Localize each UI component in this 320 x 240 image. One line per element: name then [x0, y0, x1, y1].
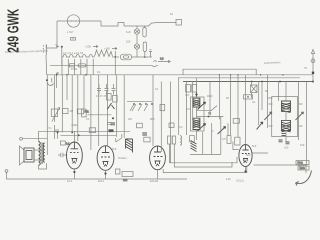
- wire lamp rail: [57, 20, 101, 22]
- resistor R4 capsule on rail: [78, 64, 86, 67]
- cap C2: [55, 130, 59, 139]
- vertical v124: [123, 75, 125, 138]
- resistor bottom box: [122, 172, 133, 183]
- svg-text:UCL11: UCL11: [236, 179, 244, 183]
- ground lead: [305, 165, 307, 173]
- wire lamp drop: [46, 21, 57, 48]
- IFT3 winding A: [282, 101, 291, 113]
- trimmer circle: [209, 112, 211, 114]
- vertical v91: [90, 75, 92, 150]
- tube T1: [67, 142, 83, 169]
- nested wire 1: [170, 144, 238, 163]
- cap c_c: [112, 84, 116, 95]
- svg-text:Erde: Erde: [300, 166, 306, 170]
- heater arrow 6,3V: [152, 57, 171, 67]
- junction dot top: [61, 46, 63, 48]
- antenna dot: [312, 72, 314, 74]
- wire to rectifier: [126, 26, 137, 29]
- rectifier circle U1a: [134, 29, 139, 34]
- resistor box mid: [89, 128, 95, 133]
- band switch contacts: [130, 103, 153, 111]
- switch wire s: [57, 73, 59, 88]
- svg-text:ECH11: ECH11: [150, 179, 159, 183]
- pickup terminal: [20, 137, 48, 140]
- left edge rect: [160, 105, 165, 111]
- bus 3: [183, 81, 313, 83]
- heater loop winding: [62, 54, 95, 57]
- vertical v54: [54, 75, 56, 139]
- box right2: [235, 137, 240, 145]
- wire cap to corner: [132, 56, 152, 58]
- svg-text:0,5: 0,5: [222, 137, 226, 141]
- svg-text:Netz: Netz: [298, 161, 304, 165]
- junction T2: [104, 172, 106, 174]
- svg-text:0,1: 0,1: [97, 70, 101, 74]
- cap small mid: [108, 123, 112, 125]
- svg-text:AL 4: AL 4: [67, 179, 73, 183]
- cap c_a: [97, 84, 101, 95]
- tube T3: [150, 146, 166, 170]
- svg-text:5nF: 5nF: [252, 144, 257, 148]
- svg-text:EL11: EL11: [98, 179, 104, 183]
- rectifier circle U1b: [134, 44, 139, 49]
- svg-text:47n: 47n: [185, 93, 190, 97]
- mains lead 2: [51, 78, 53, 83]
- svg-text:14C: 14C: [226, 177, 231, 181]
- box small r2: [169, 123, 174, 128]
- dark arrow down: [196, 93, 198, 96]
- svg-text:100: 100: [126, 40, 131, 44]
- arrow B+160: [112, 48, 117, 50]
- resistor R5 box: [51, 109, 57, 117]
- wire speaker leads: [34, 150, 45, 160]
- hatch blob mid: [191, 141, 197, 152]
- elcap small: [149, 50, 152, 57]
- svg-text:0,2: 0,2: [179, 125, 183, 129]
- vertical v62: [61, 75, 63, 133]
- svg-text:100: 100: [300, 143, 305, 147]
- wire rect2 drop: [144, 52, 146, 58]
- caps right bottom: [279, 140, 290, 144]
- mains wave b: [47, 83, 54, 86]
- dark cap col: [111, 123, 116, 125]
- dial lamp L617: [67, 15, 79, 27]
- vertical tap 115: [114, 51, 116, 75]
- mains dot: [46, 79, 48, 81]
- fuse under lamp: [71, 38, 76, 41]
- IFT3 column: [285, 82, 287, 143]
- wire T1 bottom: [73, 169, 75, 179]
- switch rail: [127, 100, 152, 102]
- box R8: [77, 109, 89, 114]
- band verticals: [62, 59, 93, 75]
- svg-text:1M: 1M: [70, 109, 74, 113]
- dot tap115: [114, 56, 116, 58]
- svg-text:MW: MW: [150, 117, 155, 121]
- resistor R2 capsule: [143, 42, 146, 52]
- wire lamp to fuse column: [101, 21, 116, 26]
- wire rectifier top link: [137, 26, 145, 28]
- wire kink to terminal: [145, 23, 155, 26]
- IFT2 box: [191, 97, 205, 131]
- mains bus 1: [47, 74, 313, 76]
- wire trafo top: [38, 131, 40, 141]
- vertical v84: [83, 75, 85, 109]
- resistor box R7: [61, 141, 71, 146]
- transformer core: [41, 143, 42, 165]
- svg-text:100: 100: [284, 146, 289, 150]
- wire terminal arrow: [155, 22, 177, 24]
- screen rail: [61, 134, 117, 136]
- svg-text:L 617: L 617: [67, 30, 74, 34]
- diode mark: [116, 134, 122, 142]
- switch contact left: [56, 45, 60, 48]
- bottom rail: [7, 173, 188, 180]
- resistor R1 capsule: [143, 28, 146, 38]
- box 50 X: [251, 85, 258, 93]
- trimmer arrow d: [264, 112, 272, 120]
- right verticals: [252, 75, 307, 165]
- output transformer secondary: [43, 143, 45, 162]
- small box mid-right: [244, 95, 253, 99]
- right bottom rail: [254, 164, 307, 166]
- mid bottom wire: [190, 153, 221, 155]
- nested wire 3: [163, 167, 247, 173]
- IFT3 winding B: [282, 120, 291, 131]
- resistor v box: [190, 136, 195, 142]
- arrow B+105: [93, 46, 98, 48]
- junction dots bus1: [56, 74, 87, 76]
- grid cap T1: [58, 153, 67, 157]
- svg-text:0,1: 0,1: [155, 87, 159, 91]
- wire T1 top: [73, 131, 75, 142]
- box arrow right: [233, 119, 239, 124]
- mid verticals2: [203, 116, 228, 154]
- small box on rail: [70, 64, 75, 67]
- electrolytic C1: [120, 54, 131, 60]
- wire rect1 drop: [136, 49, 138, 57]
- mid horizontals: [197, 106, 224, 117]
- junction dot mid: [208, 116, 210, 118]
- box pair a: [107, 94, 112, 101]
- IFT2 winding B: [193, 118, 200, 129]
- left resistor box2: [82, 109, 87, 117]
- bus 2: [178, 77, 300, 79]
- cap c_b: [105, 84, 109, 95]
- wire T2 bottom: [105, 171, 107, 179]
- box tb: [137, 123, 143, 128]
- triode mark: [108, 103, 115, 119]
- net label boxes: [296, 161, 309, 171]
- vertical v78: [77, 75, 79, 141]
- svg-text:1M: 1M: [186, 107, 190, 111]
- anode rail: [39, 130, 131, 132]
- trimmer arrow c dark: [218, 127, 226, 135]
- cap dark mid: [142, 133, 147, 135]
- trimmer arrow a: [198, 102, 206, 110]
- junction dot c2: [57, 132, 59, 134]
- screen feed wire: [183, 69, 256, 75]
- svg-text:5nF: 5nF: [246, 153, 251, 157]
- svg-text:249 GWK: 249 GWK: [5, 9, 22, 53]
- IFT2 column: [196, 78, 198, 140]
- wire choke to bus: [45, 55, 48, 75]
- IFT2 winding A: [193, 98, 200, 107]
- tube T2: [97, 146, 114, 171]
- junction screen rail: [78, 134, 80, 136]
- svg-text:+105: +105: [85, 45, 91, 49]
- box pair b: [113, 96, 118, 103]
- trimmer arrow e: [296, 112, 304, 120]
- wire T4 bottom: [245, 167, 247, 173]
- dot cap right: [144, 56, 146, 58]
- choke L1: [43, 45, 46, 55]
- svg-text:+160: +160: [104, 47, 110, 51]
- svg-text:(10k): (10k): [72, 123, 78, 127]
- IFT3 box: [272, 97, 298, 137]
- bus3 dots: [251, 81, 314, 83]
- junction T4: [244, 170, 246, 172]
- wire grid row: [88, 114, 112, 116]
- right mid wires: [268, 98, 303, 126]
- vertical v107: [106, 75, 108, 146]
- dark cap under IFT3: [282, 134, 286, 136]
- junction T1: [73, 171, 75, 173]
- nested wire 2: [174, 144, 232, 167]
- svg-text:LW: LW: [128, 117, 132, 121]
- speaker magnet: [24, 148, 34, 162]
- trimmer arrow f dark: [257, 122, 263, 129]
- resistor box right: [227, 136, 231, 144]
- box mw: [144, 137, 150, 142]
- svg-text:5nF: 5nF: [112, 147, 117, 151]
- wire between rectifiers: [136, 34, 138, 44]
- svg-text:47 47 47: 47 47 47: [96, 94, 107, 98]
- svg-text:50k: 50k: [85, 110, 90, 114]
- svg-text:0,1: 0,1: [86, 117, 90, 121]
- vertical v47: [46, 75, 48, 155]
- resistor pair boxes: [168, 136, 176, 144]
- antenna column: [311, 50, 315, 82]
- tube T4: [239, 145, 252, 167]
- ground symbol: [296, 171, 312, 186]
- vertical v99: [98, 75, 100, 146]
- terminal box X1: [176, 20, 182, 26]
- svg-text:6+8: 6+8: [126, 30, 131, 34]
- wire zigzag to cap: [113, 56, 120, 58]
- wire trafo bottom: [39, 163, 47, 169]
- cluster boxes mid: [186, 85, 197, 93]
- vertical v117: [116, 75, 118, 137]
- pot arrow: [52, 108, 60, 122]
- top rail: [50, 64, 152, 66]
- mid verticals right: [153, 75, 238, 163]
- box R6: [63, 109, 69, 114]
- speaker cone: [20, 146, 25, 165]
- wire top tap: [61, 47, 63, 66]
- output transformer primary: [39, 142, 41, 166]
- box under T2: [115, 169, 120, 174]
- mains switch: [56, 72, 58, 75]
- junction dot v72: [71, 132, 73, 134]
- svg-text:6,3: 6,3: [160, 57, 164, 61]
- svg-text:a 0,1 0,1 a 0,1 50: a 0,1 0,1 a 0,1 50: [63, 51, 84, 55]
- vertical v72: [71, 75, 73, 133]
- svg-text:0,1: 0,1: [252, 100, 256, 104]
- vertical v67: [66, 75, 68, 100]
- bus1 junction dots: [219, 74, 284, 76]
- bottom terminal: [5, 170, 8, 173]
- svg-text:Tonabn.: Tonabn.: [118, 156, 128, 160]
- wire T3 bottom: [157, 170, 159, 179]
- svg-text:10nF: 10nF: [207, 94, 213, 98]
- wire T4 top: [245, 75, 247, 145]
- resistor zigzag R3: [95, 50, 113, 57]
- osc coil hatch: [126, 139, 133, 153]
- dark box col: [109, 129, 114, 132]
- misc tiny labels: [86, 70, 305, 181]
- thermal fuse: [116, 23, 126, 27]
- coil small v: [180, 136, 182, 146]
- svg-text:10k: 10k: [123, 178, 128, 182]
- T4 grid lead: [233, 142, 268, 154]
- trimmer arrow b dark: [198, 124, 206, 132]
